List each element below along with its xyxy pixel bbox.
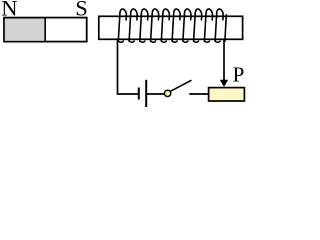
coil turn leg 5	[161, 14, 163, 42]
bar magnet body	[4, 18, 87, 42]
battery long plate (positive)	[145, 80, 147, 107]
coil turn bottom hook 6	[172, 41, 177, 42]
battery short plate (negative)	[138, 88, 140, 100]
coil turn leg 8	[194, 14, 196, 42]
wire: left lead down from solenoid and across to battery	[118, 40, 139, 95]
slider arrowhead into rheostat	[220, 80, 228, 87]
coil turn top arc 8	[195, 9, 202, 20]
svg-text:S: S	[75, 0, 88, 21]
coil turn top arc 2	[131, 9, 138, 20]
solenoid core rectangle	[99, 16, 243, 39]
svg-text:N: N	[1, 0, 17, 21]
coil turn bottom hook 9	[204, 41, 209, 42]
coil turn top arc 5	[163, 9, 170, 20]
coil turn top arc 9	[206, 9, 213, 20]
coil turn bottom hook 4	[151, 41, 156, 42]
wire: right lead down from solenoid (slider arrow shaft)	[223, 40, 225, 82]
coil turn bottom hook 10	[215, 41, 220, 42]
coil turn leg 7	[183, 14, 185, 42]
coil turn bottom hook 2	[129, 41, 134, 42]
coil turn top arc 1	[120, 9, 127, 20]
coil turn leg 6	[172, 14, 174, 42]
wire: switch to rheostat	[189, 93, 208, 95]
wire: battery to switch	[147, 93, 164, 95]
coil turn leg 9	[204, 14, 206, 42]
coil turn top arc 3	[141, 9, 148, 20]
coil turn bottom hook 5	[161, 41, 166, 42]
switch pivot circle	[164, 90, 170, 96]
coil turn top arc 6	[174, 9, 181, 20]
svg-text:P: P	[233, 63, 245, 87]
coil turn top arc 7	[185, 9, 192, 20]
coil turn leg 4	[151, 14, 153, 42]
coil turn bottom hook 1	[118, 41, 123, 42]
rheostat P body	[209, 88, 245, 101]
coil turn top arc 4	[152, 9, 159, 20]
coil turn leg 3	[140, 14, 142, 42]
coil turn leg 11	[225, 15, 226, 41]
coil turn bottom hook 3	[140, 41, 145, 42]
coil turn bottom hook 8	[194, 41, 199, 42]
coil turn leg 1	[118, 14, 120, 42]
magnet pole divider	[44, 18, 46, 42]
coil turn bottom hook 7	[183, 41, 188, 42]
switch lever (open)	[171, 80, 192, 91]
magnet N-pole shaded half	[5, 19, 45, 41]
coil turn leg 2	[129, 14, 131, 42]
coil turn top arc 10	[217, 9, 224, 20]
coil turn leg 10	[215, 14, 217, 42]
